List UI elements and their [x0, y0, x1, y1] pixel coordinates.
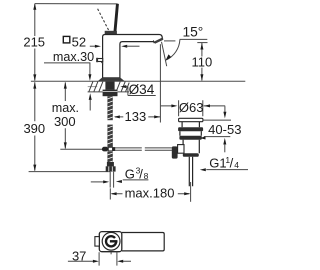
133 left arrow — [114, 115, 120, 118]
G1 1/4 leader arrow — [200, 168, 206, 171]
svg-text:37: 37 — [72, 248, 86, 263]
flange top extension line — [204, 119, 232, 121]
G3/8 underline — [123, 179, 149, 181]
waste upper body — [180, 131, 201, 136]
110 bottom arrow — [200, 74, 203, 81]
dimension G3/8 left arrow — [91, 181, 104, 183]
spout mouth aerator band — [154, 38, 164, 44]
square52 right arrow — [121, 45, 127, 48]
37 right tick — [116, 251, 118, 265]
G3/8 thread stub — [110, 172, 113, 188]
threaded shank through deck — [105, 82, 114, 90]
40-53 lower up arrow — [223, 138, 226, 145]
waste bottom nut — [183, 153, 199, 157]
svg-text:300: 300 — [54, 114, 76, 129]
dimension 37 — [68, 260, 131, 262]
hose-end reference line — [29, 171, 111, 173]
dimension max.180 — [112, 193, 190, 195]
rod junction: crossing window — [108, 147, 112, 150]
dimension Ø63 — [161, 105, 225, 107]
svg-text:/: / — [139, 167, 143, 182]
dimension 215 vertical line — [34, 4, 36, 81]
dimension G3/8 right arrow under label — [116, 180, 122, 183]
svg-text:15°: 15° — [182, 25, 203, 40]
pop-up rod horizontal — [115, 148, 172, 150]
133 right arrow — [154, 115, 160, 118]
lever base connector — [105, 31, 117, 35]
dimension 215 bottom arrow — [33, 74, 36, 81]
dimension 110 top tick — [197, 42, 207, 44]
deck hatching left — [89, 82, 103, 92]
max.300 reference line — [60, 148, 102, 150]
faucet body and spout outline — [103, 35, 163, 78]
svg-text:40-53: 40-53 — [208, 122, 241, 137]
plan view lever — [122, 233, 164, 251]
threaded rod — [107, 96, 112, 120]
lever dashed open position — [98, 9, 110, 32]
flexible hose lower — [107, 151, 112, 163]
Ø63 extension ticks — [179, 100, 203, 116]
dimension max.300 top arrow — [64, 82, 67, 89]
deck bottom line — [88, 91, 130, 93]
svg-text:52: 52 — [72, 34, 86, 49]
max.30 leader line down — [89, 63, 91, 75]
GROHE logo bar — [110, 240, 118, 242]
deck mid hidden line — [88, 86, 98, 88]
GROHE logo gap wedge — [111, 236, 119, 241]
15 degree underline — [180, 38, 208, 40]
dimension 40-53 hanger line — [224, 106, 226, 113]
plan view side tab — [95, 237, 99, 247]
waste mid body — [183, 140, 199, 153]
svg-text:/: / — [230, 156, 234, 171]
base flange — [98, 78, 125, 82]
dimension Ø34 leader arrow — [120, 85, 126, 88]
pop-up waste plug — [179, 118, 203, 121]
dimension 390 vertical line — [34, 82, 36, 170]
svg-text:max.: max. — [52, 101, 79, 115]
15 degree arc — [166, 40, 180, 61]
dimension max.300 bottom arrow — [64, 142, 67, 149]
pop-up rod knob on body — [97, 59, 103, 62]
dimension 110 line — [201, 43, 203, 81]
dimension 390 top arrow — [33, 82, 36, 89]
flexible hose upper — [107, 125, 112, 148]
dimension 215 top arrow — [33, 3, 36, 10]
40-53 underline — [204, 136, 231, 138]
svg-text:4: 4 — [234, 160, 239, 170]
waste lower band — [179, 136, 201, 140]
svg-text:G: G — [125, 167, 135, 182]
110 top arrow — [200, 43, 203, 50]
waste upper collar band — [178, 127, 203, 131]
svg-text:133: 133 — [125, 109, 147, 124]
max.180 right tick — [190, 182, 192, 202]
dimension max.300 vertical line — [64, 82, 66, 148]
40-53 underline left arrow — [200, 137, 206, 140]
G1 1/4 underline — [206, 169, 248, 171]
svg-text:390: 390 — [23, 121, 45, 136]
max.30 underline — [44, 62, 90, 64]
plan view body — [99, 232, 122, 252]
svg-text:max.180: max.180 — [125, 185, 175, 200]
mounting nut — [103, 90, 118, 97]
15 degree arc arrow — [166, 54, 172, 60]
aerator datum line — [164, 40, 175, 42]
37 left tick — [98, 252, 100, 265]
hose end fitting collar — [107, 162, 114, 166]
svg-text:G1: G1 — [209, 156, 226, 171]
rod socket knob — [172, 146, 178, 158]
rod socket connector — [178, 145, 184, 154]
aerator stream vertical line — [159, 44, 161, 122]
max.30 up arrow below deck — [89, 93, 92, 100]
deck hatching right — [116, 82, 129, 92]
plan view outer circle — [102, 232, 120, 250]
waste neck — [182, 122, 199, 128]
GROHE logo ring — [105, 235, 118, 248]
rod junction: ball end — [102, 147, 108, 152]
svg-text:215: 215 — [23, 35, 45, 50]
dimension 133 line — [115, 116, 160, 118]
svg-text:Ø63: Ø63 — [179, 100, 204, 115]
aerator stream angled line — [162, 42, 167, 66]
plan view centre tick — [110, 252, 112, 254]
svg-text:max.30: max.30 — [53, 50, 94, 64]
max.30 down arrow — [88, 74, 91, 81]
hose end fitting nut — [106, 166, 116, 171]
rod junction: collar — [112, 147, 115, 151]
deck top line — [31, 80, 245, 82]
svg-text:110: 110 — [192, 54, 213, 69]
square52 left arrow — [90, 45, 96, 47]
40-53 upper down arrow — [223, 112, 226, 119]
dimension square52 label — [63, 36, 70, 43]
waste tailpipe — [189, 157, 192, 186]
svg-text:Ø34: Ø34 — [129, 82, 155, 97]
dimension 390 bottom arrow — [33, 165, 36, 172]
lever blade — [113, 4, 119, 34]
top extension line — [35, 3, 118, 5]
max.180 left tick — [109, 188, 111, 199]
svg-text:8: 8 — [144, 171, 149, 181]
